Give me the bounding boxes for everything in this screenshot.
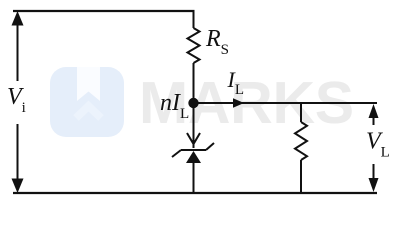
wire node to load [194,102,378,104]
current arrow nIL into zener [187,133,200,144]
wire node to zener [193,103,195,148]
voltage arrow Vi [12,11,24,193]
wire bottom rail [13,192,377,194]
node nIL junction [188,98,198,108]
voltage arrow VL [369,104,379,192]
zener diode [172,143,214,193]
resistor RS [188,10,200,103]
current arrow IL [233,98,244,107]
resistor RL load [295,103,307,193]
wire top rail [13,10,195,12]
svg-text:RS: RS [205,26,229,58]
svg-text:Vi: Vi [7,84,26,116]
svg-text:VL: VL [366,129,390,161]
